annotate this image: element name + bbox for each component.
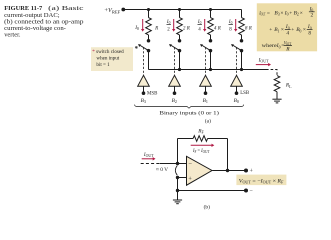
wire bottom rail <box>178 189 254 195</box>
resistor R branch 1 <box>146 10 159 41</box>
svg-text:IF = IOUT: IF = IOUT <box>192 148 210 154</box>
svg-text:B2: B2 <box>172 98 177 104</box>
svg-text:≈ 0 V: ≈ 0 V <box>156 167 168 173</box>
wire switch 1 to output bus <box>148 51 150 70</box>
wire top rail <box>123 9 241 11</box>
svg-text:4 R: 4 R <box>214 26 222 32</box>
dashed wire to load <box>266 70 277 76</box>
ground op-amp <box>173 189 182 204</box>
resistor RF feedback <box>178 128 228 141</box>
virtual ground arc <box>175 166 177 176</box>
svg-text:IOUT: IOUT <box>258 57 270 63</box>
svg-text:+: + <box>291 27 294 33</box>
svg-text:LSB: LSB <box>240 91 250 96</box>
svg-text:verter.: verter. <box>4 32 21 39</box>
resistor 2R branch 2 <box>177 10 191 41</box>
node +VREF <box>104 7 125 14</box>
resistor RL <box>274 76 292 92</box>
resistor 4R branch 3 <box>208 10 222 41</box>
switch S2 <box>169 39 181 52</box>
op-amp U1 <box>187 156 213 185</box>
svg-text:+: + <box>289 11 292 17</box>
control dashed line bit 3 <box>143 47 145 75</box>
label IF = IOUT with arrow <box>191 144 215 155</box>
svg-text:where: where <box>262 43 278 49</box>
label IOUT (a) with arrow <box>256 57 271 66</box>
wire switch 3 to output bus <box>209 51 212 72</box>
svg-text:* switch closed: * switch closed <box>92 49 124 55</box>
current label I0/8 <box>228 19 238 33</box>
svg-text:×: × <box>303 27 306 33</box>
figure caption <box>4 5 83 39</box>
svg-text:(b): (b) <box>204 204 210 211</box>
svg-text:2: 2 <box>311 13 314 19</box>
wire output <box>212 168 253 174</box>
wire feedback right <box>227 139 229 171</box>
svg-text:MSB: MSB <box>147 91 158 96</box>
rail junction dots <box>147 8 212 11</box>
switch S4 <box>231 39 243 52</box>
current label I0 <box>134 19 144 32</box>
buffer driver B3 <box>138 75 150 95</box>
brace binary inputs <box>135 105 244 109</box>
wire output bus <box>149 69 267 71</box>
svg-text:+: + <box>269 27 272 33</box>
svg-text:+: + <box>188 176 192 183</box>
svg-text:bit = 1: bit = 1 <box>96 62 110 68</box>
svg-text:B1: B1 <box>203 98 208 104</box>
svg-text:−: − <box>188 161 192 168</box>
buffer driver B1 <box>200 75 212 95</box>
ground for RL <box>272 92 281 103</box>
wire noninverting input <box>176 176 187 191</box>
svg-text:RF: RF <box>197 128 204 134</box>
control dashed line bit 0 <box>236 47 238 75</box>
svg-text:Binary inputs (0 or 1): Binary inputs (0 or 1) <box>159 109 219 116</box>
svg-text:(a): (a) <box>205 118 211 125</box>
svg-text:I0: I0 <box>134 25 139 31</box>
label VOUT box <box>236 175 286 186</box>
resistor 8R branch 4 <box>239 10 253 41</box>
wire switch 2 to output bus <box>178 51 181 72</box>
note box switch closed <box>91 47 133 71</box>
equation box IOUT <box>257 3 317 52</box>
svg-text:*: * <box>135 46 139 53</box>
svg-text:×: × <box>281 27 284 33</box>
buffer driver B2 <box>169 75 181 95</box>
control dashed line bit 1 <box>205 47 207 75</box>
svg-text:IOUT: IOUT <box>143 152 154 158</box>
svg-text:B0: B0 <box>234 98 239 104</box>
wire feedback left <box>177 139 179 164</box>
control dashed line bit 2 <box>174 47 176 75</box>
svg-text:4: 4 <box>286 30 289 36</box>
svg-text:8 R: 8 R <box>245 26 253 32</box>
svg-text:when input: when input <box>96 56 119 62</box>
svg-text:R: R <box>285 47 290 53</box>
svg-text:8: 8 <box>308 30 311 36</box>
switch S1 <box>135 39 151 53</box>
current label I0/2 <box>166 19 176 33</box>
wire input to inverting <box>160 162 187 165</box>
svg-text:2 R: 2 R <box>183 26 191 32</box>
buffer driver B0 <box>231 75 243 95</box>
label IOUT (b) input with arrow <box>142 152 156 161</box>
svg-text:RL: RL <box>285 83 292 89</box>
current label I0/4 <box>197 19 207 33</box>
svg-text:B3: B3 <box>141 98 146 104</box>
dashed input wire <box>141 163 160 165</box>
wire switch 4 to output bus <box>240 51 243 72</box>
svg-text:×: × <box>280 11 283 17</box>
svg-text:=: = <box>267 11 270 17</box>
svg-text:×: × <box>300 11 303 17</box>
switch S3 <box>200 39 212 52</box>
